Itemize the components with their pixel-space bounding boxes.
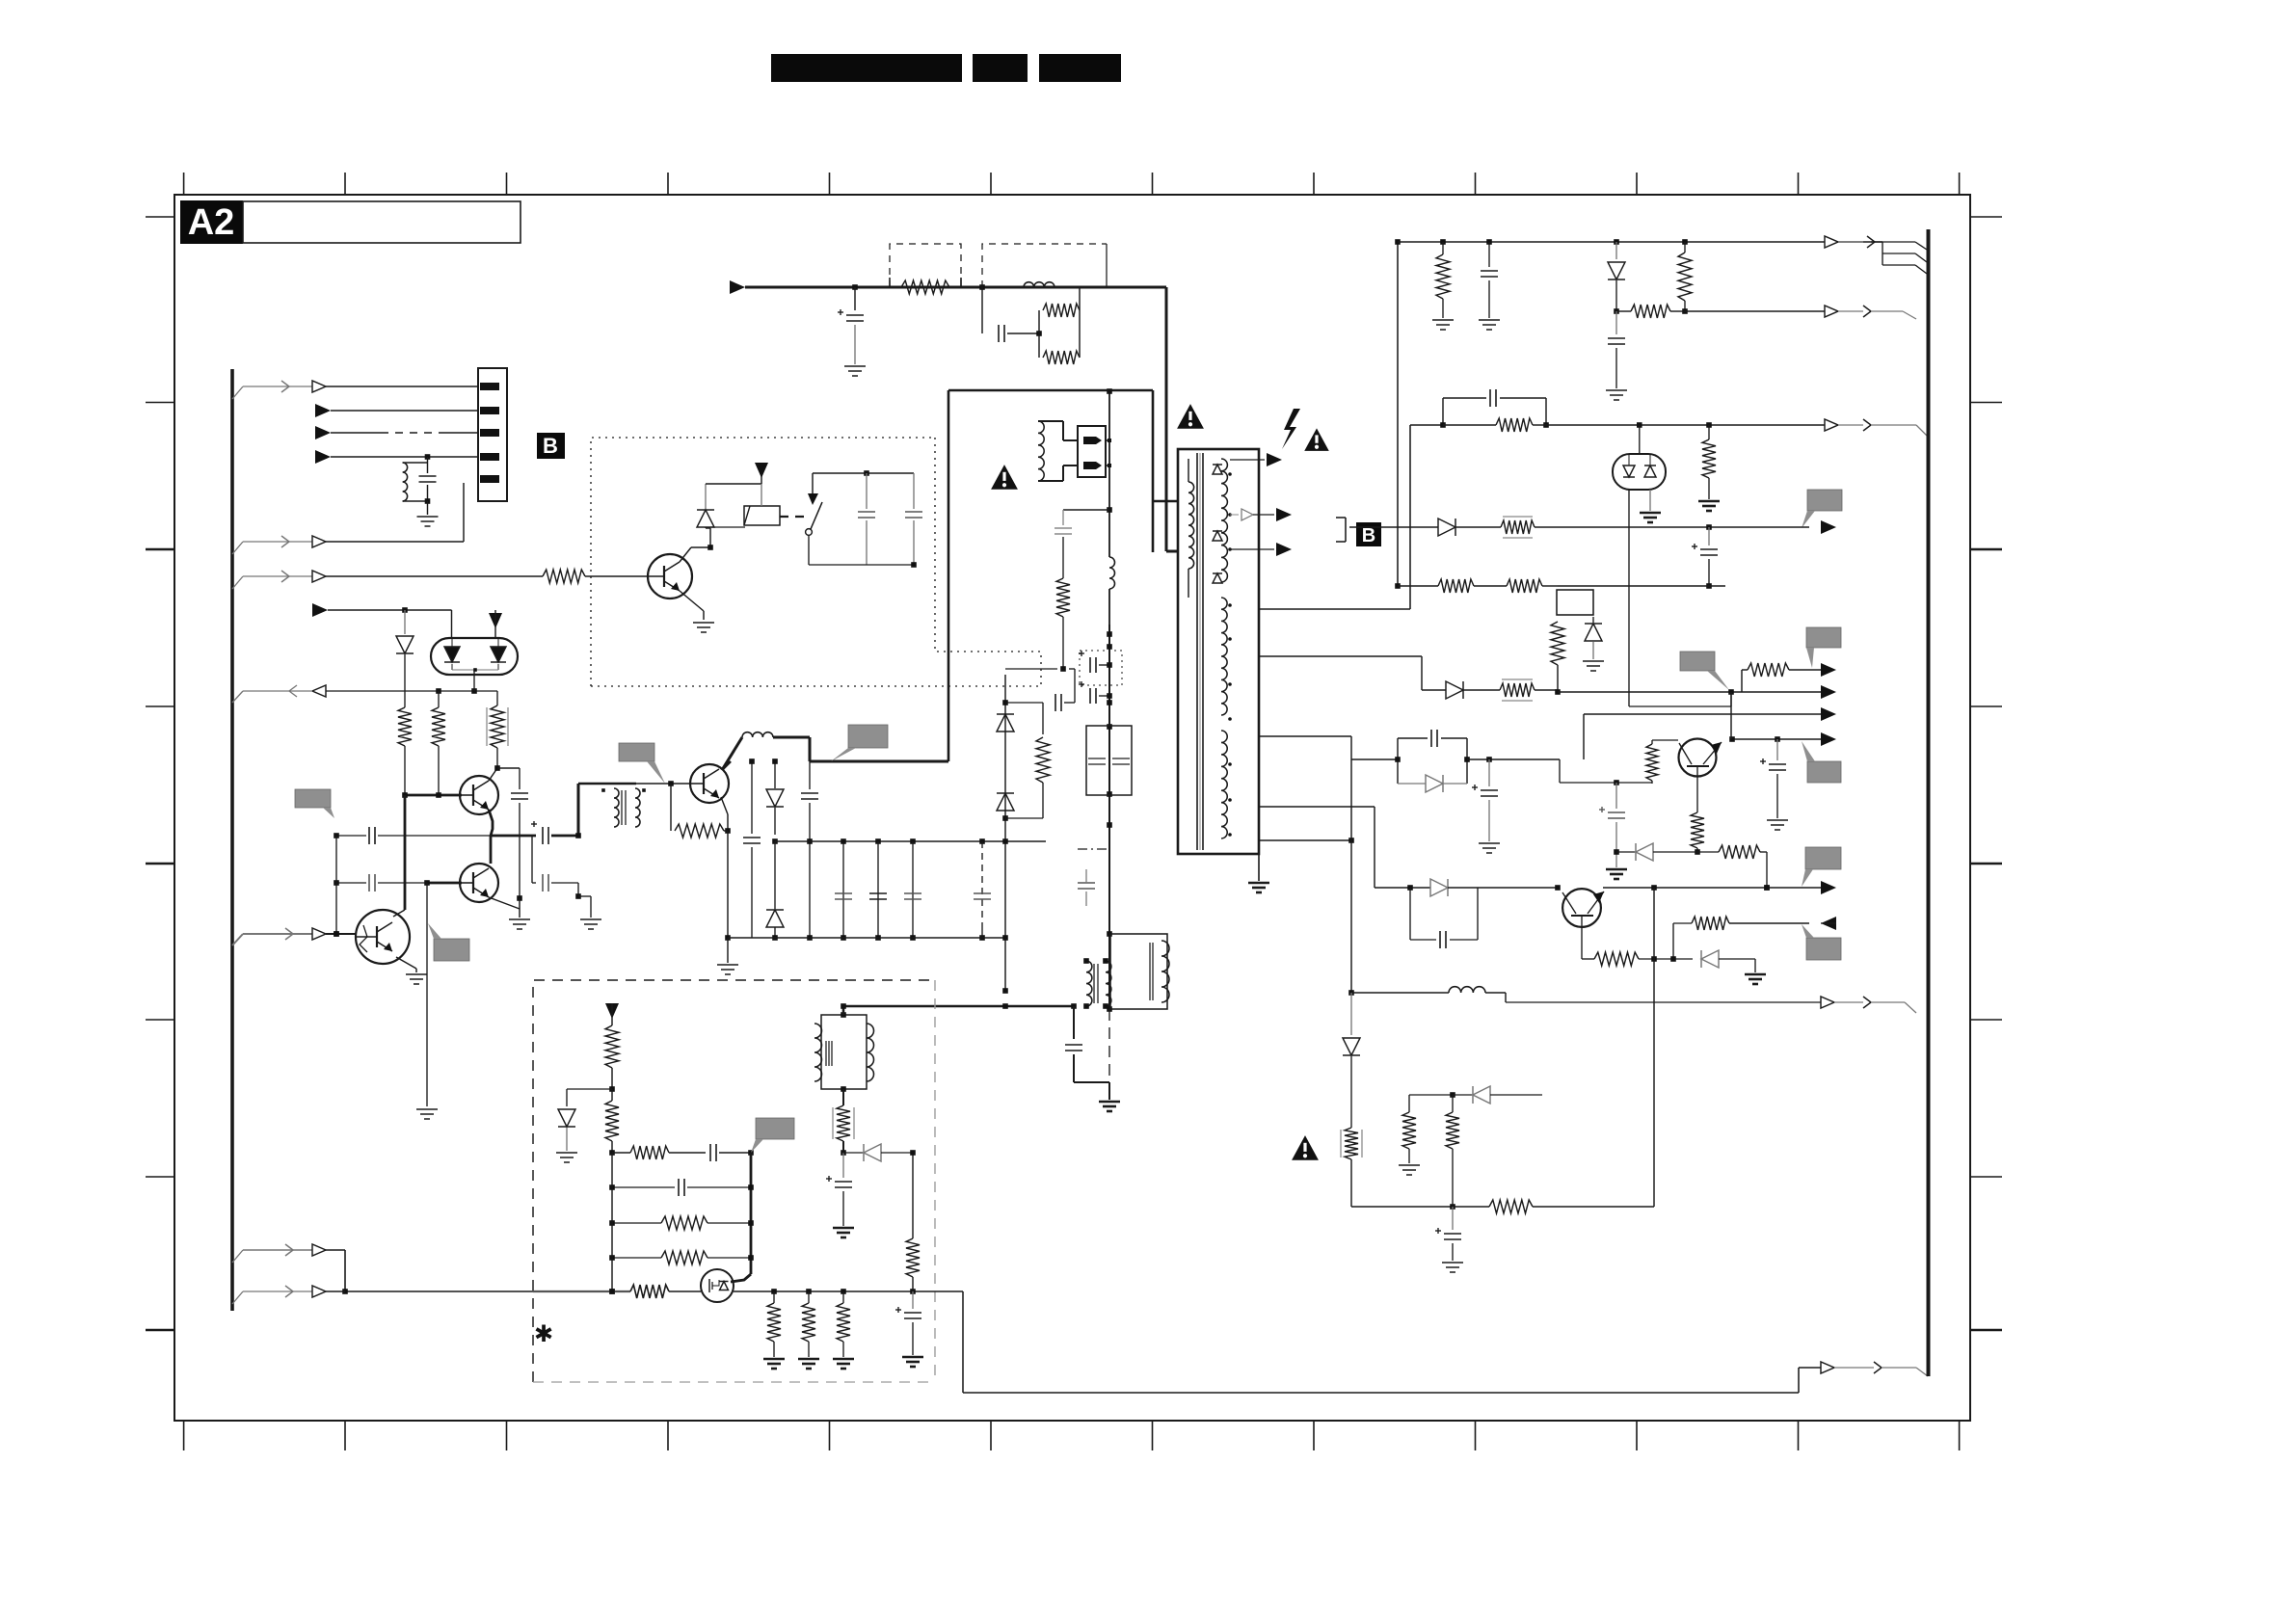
capacitor C-t1 — [1481, 242, 1498, 318]
left tick marks — [146, 217, 174, 1330]
arrow row 323 — [1825, 306, 1916, 319]
ground T2 — [509, 909, 530, 929]
resistor R-t2 — [1678, 242, 1692, 314]
wire Q5 collector — [1652, 740, 1678, 744]
resistor R-emitter Q4 — [671, 784, 728, 838]
resistor R-v5 — [630, 1285, 669, 1298]
ground Q4 rail — [717, 938, 738, 974]
capacitor C-812 — [1599, 783, 1625, 867]
arrow supply relay — [755, 463, 768, 478]
wire row pin4 — [315, 450, 478, 464]
optocoupler U3 — [431, 638, 518, 675]
arrow out 695 — [1821, 663, 1836, 677]
wire switch bottom — [809, 536, 917, 568]
resistor R-fus vert2 — [833, 1089, 854, 1156]
mosfet Q7 — [701, 1269, 734, 1302]
wire elbow 1252 — [1351, 1159, 1455, 1210]
svg-text:B: B — [543, 434, 558, 458]
gray flag 695 — [1680, 652, 1729, 690]
arrow out 741 — [1821, 707, 1836, 721]
wire mid row 867b — [551, 833, 581, 838]
arrow supply 633 — [312, 603, 452, 638]
wire row 1340 left — [232, 1286, 345, 1304]
asterisk note — [534, 1321, 553, 1347]
snubber D/C box A — [1395, 730, 1470, 792]
ground cold main — [1099, 1102, 1120, 1111]
wire long vertical 1402 — [1348, 759, 1354, 996]
ground R-g3 — [833, 1359, 854, 1369]
wire rail 1151 — [1107, 625, 1112, 1012]
wire T2 emitter — [489, 897, 520, 909]
switch S1 — [806, 473, 822, 535]
resistor R-fusible mains — [890, 278, 961, 294]
choke CM — [1083, 958, 1111, 1009]
capacitor C-g4 — [895, 1291, 921, 1355]
wire drop 1716 — [1653, 888, 1655, 1207]
resistor R-v3 — [609, 1216, 754, 1230]
wire coil top — [841, 1003, 846, 1015]
header black bar 1 — [771, 54, 962, 82]
wire tap 872 — [1259, 838, 1354, 843]
wire out row 547 — [1349, 526, 1438, 528]
resistor R-g3 — [837, 1291, 850, 1357]
capacitor C-1252 — [1435, 1207, 1461, 1261]
gray flag 958 — [1802, 924, 1841, 960]
transformer tap dots — [1228, 472, 1232, 837]
optocoupler U2 — [1613, 425, 1666, 490]
resistor R-v1 — [605, 1025, 619, 1092]
ground T801 — [1248, 854, 1269, 892]
wire net STANDBY row — [232, 381, 478, 399]
wire mid rail — [775, 838, 1046, 844]
inductor L-mains — [1024, 282, 1055, 287]
arrow sec out3 — [1230, 543, 1292, 556]
resistor R-1252 — [1453, 1200, 1654, 1213]
sheet title box — [243, 201, 521, 243]
transistor T2 — [460, 864, 498, 902]
wire row 717 — [232, 670, 497, 703]
wire row 608 — [1398, 579, 1725, 593]
wire Q1 emitter — [680, 591, 704, 620]
diode D-relay — [697, 484, 714, 528]
wire Q4 emitter — [721, 797, 731, 834]
wire bold T1-T2 — [490, 836, 493, 864]
ground R-t1 — [1432, 320, 1454, 330]
capacitor C-gnd — [1065, 1006, 1109, 1100]
diode D-720 — [1585, 617, 1602, 659]
capacitor C-snub AC — [982, 287, 1042, 342]
wire flag drop — [426, 883, 428, 1106]
transistor Q5 — [1679, 739, 1722, 777]
arrow out 547 — [1821, 520, 1836, 534]
wire row 1196 — [612, 1144, 754, 1161]
inductor L1 — [403, 457, 428, 501]
arrow supply opto3 — [489, 610, 502, 638]
wire sec main vertical — [1395, 239, 1401, 589]
transistor Q6 — [1562, 889, 1604, 927]
wire row 547 right — [1535, 524, 1809, 530]
warning triangle 1 — [991, 465, 1018, 490]
transformer T801 core — [1197, 453, 1203, 850]
capacitor C-r2 — [1079, 681, 1112, 704]
wire AC down to transformer — [1153, 287, 1178, 551]
gray flag T2 — [428, 923, 469, 961]
wire row 958 — [1670, 917, 1809, 962]
diode D-sec small3 — [1213, 573, 1222, 583]
net label B (right) — [1356, 522, 1381, 546]
resistor R-snub1 — [1039, 287, 1080, 333]
wire row 718 — [1535, 689, 1821, 695]
capacitor C-p5 — [904, 841, 921, 941]
resistor R-995 — [1594, 952, 1693, 966]
capacitor C-788 — [1472, 759, 1498, 841]
ground C-g4 — [902, 1357, 923, 1367]
wire row 741 — [1584, 714, 1821, 759]
wire emitter to rail — [725, 831, 731, 941]
wire bold bus T1 — [402, 792, 462, 798]
wire base Q1 — [585, 575, 648, 577]
transistor T3 — [356, 910, 410, 964]
wire harness top — [1825, 236, 1927, 274]
gray flag out1 — [1802, 490, 1842, 528]
wire rail 788 — [1398, 757, 1560, 762]
connector J1 — [478, 368, 507, 501]
arrow out 921 — [1821, 881, 1836, 894]
svg-text:B: B — [1362, 525, 1375, 546]
warning triangle 2 — [1177, 404, 1204, 429]
ground R-opto — [1698, 501, 1720, 511]
diode D-995 — [1701, 950, 1755, 972]
wire row 1030 — [1351, 987, 1821, 1002]
dashed box fusible — [890, 244, 961, 287]
gray flag T1 — [295, 789, 334, 818]
gray flag vert — [751, 1118, 794, 1153]
ground R-g1 — [763, 1359, 785, 1369]
wire rail mid — [1108, 589, 1110, 625]
wire rail 1151 top — [1107, 388, 1112, 557]
capacitor C-547 — [1692, 527, 1718, 586]
vert coil assembly — [814, 1012, 874, 1092]
gray flag B+ line — [831, 725, 888, 761]
wire row relay-base — [232, 571, 543, 589]
diode D-633 — [396, 610, 414, 705]
resistor R-base Q1 — [543, 570, 585, 583]
wire node secondary drop — [1002, 675, 1008, 994]
dashed vert barrier — [1108, 1009, 1110, 1078]
resistor R-fb — [906, 1153, 920, 1291]
wire row 921 right — [1603, 885, 1821, 891]
capacitor C-p4 — [869, 841, 887, 941]
wire row 884b — [1653, 845, 1770, 891]
wire relay top — [706, 463, 761, 484]
dotted box cap — [1080, 651, 1122, 685]
wire T3 collector — [393, 795, 405, 917]
wire Q5 base — [1696, 766, 1698, 812]
wire drop 1796 — [1730, 692, 1732, 739]
diode D-t1 — [1608, 242, 1625, 314]
wire row 323 — [1616, 305, 1825, 318]
gray flag outA — [1806, 627, 1841, 668]
wire row 1340c — [734, 1289, 963, 1294]
wire row 812 — [1560, 759, 1652, 785]
ground C-v196 — [833, 1228, 854, 1237]
ground C-mains — [844, 366, 866, 376]
snubber RC box — [1440, 389, 1549, 428]
arrow bottom out — [1821, 1362, 1928, 1376]
snubber box B — [1410, 888, 1478, 948]
capacitor C-snub driver — [532, 836, 578, 891]
ground R-1136a — [1399, 1165, 1420, 1175]
wire vert 349 — [334, 836, 339, 937]
diode D-1092 — [1343, 993, 1360, 1128]
ground flag drop — [416, 1109, 438, 1119]
transistor Q1 — [648, 554, 692, 599]
frame border — [174, 195, 1970, 1421]
wire vert spine — [609, 1153, 615, 1294]
inductor degauss coil — [1038, 421, 1078, 481]
svg-text:A2: A2 — [188, 202, 235, 243]
diode D-921 — [1375, 879, 1478, 896]
wire inter-sheet bus bar — [1927, 229, 1931, 1376]
resistor R-Q5load — [1646, 744, 1658, 784]
diode D-s1 — [997, 714, 1014, 732]
transistor T1 — [460, 776, 498, 814]
capacitor C-v196 — [826, 1153, 852, 1226]
arrow out 1040 — [1821, 997, 1916, 1013]
ground pin4 net — [417, 501, 439, 526]
net label B (left) — [537, 433, 565, 459]
capacitor C-s1 — [1005, 666, 1075, 703]
diode D-sec small2 — [1213, 531, 1222, 541]
dashed link relay-switch — [780, 516, 806, 518]
wire tap 681 — [1259, 656, 1422, 690]
wire tap 632 — [1259, 608, 1410, 610]
ground C-t1 — [1479, 320, 1500, 330]
wire left bus — [230, 369, 234, 1311]
wire T1 collector — [489, 765, 520, 781]
capacitor C-main filter — [1086, 726, 1132, 795]
resistor R-t1 — [1436, 242, 1450, 318]
wire row 767 — [1729, 736, 1821, 742]
dashed box filter — [982, 244, 1107, 287]
resistor R-fus 716 — [1500, 679, 1535, 701]
posistor PTC — [1078, 426, 1109, 477]
wire row 1297 — [232, 1244, 348, 1294]
capacitor C-p3 — [835, 838, 852, 941]
resistor R-c fusible — [487, 691, 508, 768]
wire bold gate — [731, 1153, 751, 1282]
wire Q6 base — [1582, 916, 1594, 959]
wire row 884 — [1616, 851, 1636, 853]
header black bar 3 — [1039, 54, 1121, 82]
wire row 1232 — [609, 1179, 754, 1196]
zener D-v1 — [558, 1109, 575, 1151]
wire zener branch — [567, 1089, 612, 1106]
wire top rail — [1398, 239, 1882, 245]
inductor rail winding — [1109, 557, 1115, 589]
ground Q1 — [693, 623, 714, 632]
resistor R-snub2 — [1039, 310, 1080, 364]
net bracket B right — [1336, 518, 1346, 542]
capacitor C-mains — [838, 287, 864, 364]
capacitor C-T1c — [511, 768, 528, 901]
ground D-720 — [1583, 661, 1604, 671]
gray flag 921 — [1802, 847, 1841, 887]
resistor R-fus 547 — [1455, 517, 1535, 538]
resistor R-b — [432, 691, 445, 795]
wire bottom rail — [728, 937, 1005, 939]
ground zener — [556, 1153, 577, 1162]
wire T1 emitter — [489, 810, 493, 836]
component box 608 — [1557, 590, 1593, 615]
diode D-884 — [1636, 843, 1653, 861]
capacitor C-t2 — [1608, 311, 1625, 388]
ground C-767 — [1767, 820, 1788, 830]
gray flag driver — [619, 743, 665, 784]
wire row 969 T3base — [232, 928, 356, 945]
relay K1 — [744, 484, 780, 525]
capacitor C-mid867 — [531, 821, 548, 844]
capacitor C1 — [419, 463, 437, 504]
wire hot box outline — [948, 390, 1153, 761]
resistor R-opto — [1702, 425, 1716, 499]
right tick marks — [1970, 217, 2002, 1330]
wire opto left lead — [1628, 490, 1630, 706]
diode D-v196 — [843, 1144, 916, 1161]
wire tap 764 — [1259, 736, 1398, 759]
arrow out 767 — [1821, 732, 1836, 746]
ground T3 — [406, 974, 427, 984]
lightning symbol — [1282, 409, 1300, 449]
capacitor C-p2 — [801, 761, 818, 941]
transformer T801 outline — [1178, 449, 1259, 854]
header black bar 2 — [973, 54, 1028, 82]
capacitor C-p1 — [743, 758, 761, 938]
ground driver — [580, 919, 601, 929]
diode D-sec small1 — [1213, 465, 1222, 474]
ground C-788 — [1479, 843, 1500, 853]
dotted box B section — [591, 438, 1041, 686]
resistor R-720a — [1551, 622, 1564, 690]
transistor Q4 — [690, 764, 729, 803]
wire B+ bold elbow — [773, 737, 948, 761]
wire switch top — [813, 470, 914, 476]
capacitor C-p6 — [974, 841, 991, 941]
capacitor C-767 — [1760, 739, 1786, 818]
resistor R-fus vert — [1341, 1128, 1362, 1159]
top tick marks — [184, 173, 1960, 195]
resistor R-v4 — [609, 1251, 754, 1264]
arrow in 958 — [1821, 917, 1836, 930]
capacitor C3 — [905, 473, 922, 565]
warning triangle 3 — [1304, 428, 1329, 451]
ground C-812 — [1606, 869, 1627, 879]
svg-text:✱: ✱ — [534, 1321, 553, 1347]
resistor R-1136b — [1446, 1095, 1459, 1207]
wire row 916 — [334, 874, 427, 891]
wire +B from transformer — [1410, 425, 1443, 609]
resistor R-Q5b — [1691, 812, 1704, 855]
wire Q1 collector — [680, 528, 713, 562]
inductor L-B+ — [722, 732, 773, 770]
wire row pin5 — [232, 483, 464, 554]
ground D-995 — [1745, 974, 1766, 984]
capacitor C-r1 — [1079, 651, 1112, 673]
diode D-p2 — [766, 841, 784, 941]
transformer T801 secondary — [1221, 459, 1227, 838]
capacitor C-damper — [1055, 510, 1109, 578]
wire +B rail right — [1546, 422, 1825, 428]
diode D-s2 — [997, 793, 1014, 811]
diode D-p1 — [766, 758, 784, 844]
resistor R-v2 — [605, 1089, 619, 1156]
wire row pin2 — [315, 404, 478, 417]
diode D-o547 — [1438, 519, 1455, 536]
wire cold gnd row — [843, 1003, 1077, 1009]
wire row pin3 — [315, 426, 478, 439]
ground opto — [1640, 490, 1661, 522]
wire bottom long row — [963, 1291, 1821, 1393]
transformer T-driver — [578, 784, 646, 836]
resistor R-1136a — [1402, 1095, 1416, 1163]
resistor R-snubB — [1443, 418, 1546, 432]
diode D-1136 — [1473, 1086, 1542, 1104]
ground R-g2 — [798, 1359, 819, 1369]
wire mid row 867 — [334, 827, 536, 844]
resistor R-a — [398, 705, 412, 795]
dashed box vertical stage — [533, 980, 935, 1382]
wire opto drop jog — [1629, 692, 1731, 706]
resistor R-g1 — [767, 1291, 781, 1357]
wire main row 1340 — [345, 1289, 630, 1294]
wire T2 base bus — [424, 880, 462, 886]
wire tap 837 — [1259, 807, 1375, 888]
sheet label A2 — [180, 200, 243, 244]
ground C-t2 — [1606, 390, 1627, 400]
arrow +B out — [1825, 419, 1927, 436]
arrow out 718 — [1821, 685, 1836, 699]
gray flag 767 — [1802, 741, 1841, 783]
wire row 1340b — [669, 1290, 701, 1292]
wire relay-Q1 — [710, 526, 745, 528]
resistor R-damper — [1056, 578, 1070, 669]
resistor R-g2 — [802, 1291, 815, 1357]
wire row 921 left — [1478, 885, 1561, 891]
warning triangle 4 — [1292, 1135, 1319, 1160]
coil box — [1110, 934, 1169, 1009]
wire row 695 — [1742, 663, 1821, 692]
wire driver sec low — [575, 883, 591, 918]
dash-dot barrier — [1078, 848, 1109, 850]
wire Q4 base — [636, 781, 690, 786]
wire AC mains — [730, 280, 1166, 294]
capacitor C-r3 — [1078, 869, 1095, 906]
resistor R-s1 — [1005, 694, 1075, 818]
wire Q4 collector — [722, 761, 731, 770]
arrow sec out1 — [1230, 453, 1282, 466]
wire T3 emitter — [396, 957, 416, 972]
transformer T801 primary — [1188, 459, 1194, 598]
arrow sec out2 — [1230, 508, 1292, 521]
arrow supply vert — [605, 1003, 619, 1025]
bottom tick marks — [184, 1421, 1960, 1450]
wire row 1136 — [1409, 1092, 1473, 1098]
ground C-1252 — [1442, 1263, 1463, 1272]
diode D-716 — [1422, 681, 1500, 699]
capacitor C2 — [858, 473, 875, 565]
